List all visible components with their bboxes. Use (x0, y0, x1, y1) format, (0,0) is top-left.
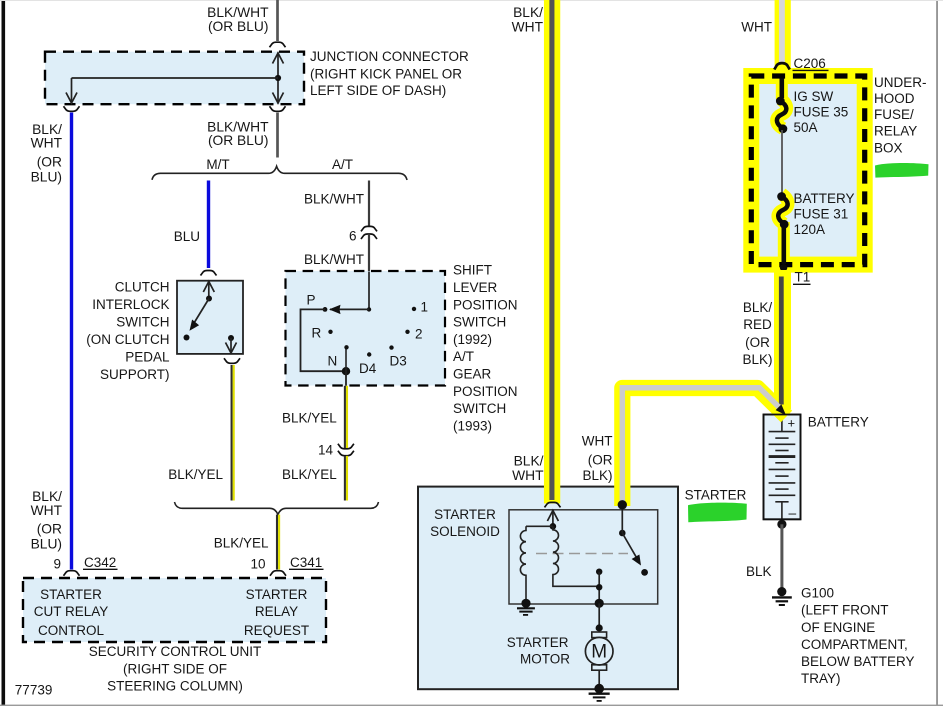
connector cap at C342 entry (64, 571, 80, 576)
svg-text:A/T: A/T (453, 349, 474, 364)
svg-text:SUPPORT): SUPPORT) (100, 367, 170, 382)
connector cup at junction connector bottom right exit (270, 106, 286, 111)
wire motor to ground (598, 671, 600, 689)
label UNDER-HOOD FUSE/RELAY BOX (874, 75, 927, 155)
svg-text:BLK/YEL: BLK/YEL (168, 467, 223, 482)
wire vertical inside junction connector right (277, 52, 279, 103)
starter box (418, 487, 678, 690)
wire inner box to motor (598, 603, 600, 628)
svg-text:GEAR: GEAR (453, 367, 492, 382)
svg-text:OF ENGINE: OF ENGINE (801, 620, 875, 635)
connector cap at C341 entry (270, 571, 286, 576)
pin R dot (328, 330, 332, 334)
wire to left coil (526, 525, 553, 527)
label BLK/WHT top center (512, 5, 544, 34)
connector cap at junction connector top entry (270, 42, 286, 47)
connector cap at clutch interlock switch entry (201, 271, 217, 276)
page left border (2, 0, 6, 706)
svg-text:BLK): BLK) (742, 352, 772, 367)
svg-text:WHT: WHT (31, 136, 63, 151)
in-line connector 14 (338, 444, 354, 449)
svg-text:WHT: WHT (31, 503, 63, 518)
underhood fuse/relay box group (751, 76, 864, 271)
svg-text:14: 14 (318, 443, 334, 458)
wire contact stub (598, 572, 600, 604)
svg-text:MOTOR: MOTOR (520, 651, 570, 666)
svg-text:LEVER: LEVER (453, 280, 498, 295)
label STARTER RELAY REQUEST (244, 587, 309, 638)
svg-text:(OR BLU): (OR BLU) (208, 19, 269, 34)
node battery negative (777, 520, 786, 529)
svg-text:WHT: WHT (512, 19, 544, 34)
svg-text:BLK/WHT: BLK/WHT (207, 5, 269, 20)
wire wiper to P with arrow (330, 308, 369, 310)
junction connector box (45, 52, 304, 104)
svg-text:(OR: (OR (588, 453, 613, 468)
svg-text:WHT: WHT (512, 468, 544, 483)
svg-text:T1: T1 (795, 270, 811, 285)
battery box (764, 415, 801, 520)
arrow up at solenoid entry (552, 511, 554, 527)
svg-text:6: 6 (349, 229, 357, 244)
wire BLK/YEL right lower (344, 456, 346, 501)
svg-text:RED: RED (743, 317, 772, 332)
svg-text:JUNCTION CONNECTOR: JUNCTION CONNECTOR (310, 49, 469, 64)
wire P to common L path (301, 309, 347, 371)
wire shift switch exit (345, 371, 347, 386)
wire horizontal inside junction connector (72, 77, 279, 79)
battery + terminal stub (781, 416, 783, 432)
wire into shift switch (368, 272, 370, 310)
node motor line at inner box border (595, 599, 604, 608)
svg-text:BLK/: BLK/ (743, 300, 773, 315)
pin 2 dot (405, 330, 409, 334)
coil left (pull-in winding) (520, 526, 526, 603)
svg-text:BLK/WHT: BLK/WHT (304, 192, 364, 207)
label IG SW FUSE 35 50A (794, 89, 849, 135)
wire vertical inside junction connector left (71, 78, 73, 104)
page bottom edge (0, 705, 943, 706)
label BATTERY FUSE 31 120A (794, 191, 855, 237)
clutch interlock switch box (177, 281, 243, 354)
svg-text:BELOW BATTERY: BELOW BATTERY (801, 654, 915, 669)
coil right (hold-in winding) (553, 526, 599, 586)
svg-text:M/T: M/T (206, 157, 229, 172)
svg-text:BATTERY: BATTERY (794, 191, 855, 206)
svg-text:A/T: A/T (332, 157, 353, 172)
svg-text:WHT: WHT (582, 434, 613, 449)
wire BLK/WHT (A/T branch) lower (368, 234, 370, 271)
svg-text:R: R (312, 326, 322, 341)
svg-text:2: 2 (415, 327, 423, 342)
svg-text:PEDAL: PEDAL (125, 350, 170, 365)
svg-text:77739: 77739 (15, 683, 53, 698)
wire clutch switch output down (230, 338, 232, 353)
svg-text:BLU: BLU (174, 229, 200, 244)
arrow down at junction connector bottom right (273, 93, 284, 104)
highlighter on internal feed wire (776, 80, 788, 99)
node junction dot inside connector (275, 75, 281, 81)
battery - terminal stub (781, 502, 783, 519)
label SHIFT LEVER POSITION SWITCH (1992) A/T GEAR POSITION SWITCH (1993) (453, 263, 518, 434)
svg-text:(ON CLUTCH: (ON CLUTCH (86, 332, 169, 347)
highlighter on BLK/RED wire (774, 270, 791, 409)
svg-text:SECURITY CONTROL UNIT: SECURITY CONTROL UNIT (89, 644, 262, 659)
node solenoid feed (550, 523, 557, 530)
wire fuse 31 to T1 (781, 226, 786, 264)
arrow into battery positive (776, 404, 786, 415)
svg-text:BLK/: BLK/ (32, 489, 62, 504)
wire BLK/YEL right upper (from shift switch) (344, 386, 346, 449)
svg-text:POSITION: POSITION (453, 297, 518, 312)
svg-text:BATTERY: BATTERY (808, 415, 869, 430)
node WHT wire at starter box (618, 500, 627, 509)
label BLK/WHT (OR BLU) left lower (31, 489, 63, 552)
arrow down at clutch switch bottom (226, 343, 237, 354)
ground below starter box (589, 693, 610, 695)
svg-text:LEFT SIDE OF DASH): LEFT SIDE OF DASH) (310, 83, 446, 98)
connector cap at starter solenoid entry (545, 502, 561, 507)
svg-text:–: – (789, 506, 797, 521)
brace merge BLK/YEL (175, 502, 379, 515)
svg-text:BLK: BLK (746, 564, 772, 579)
solenoid switch blade (open) with arrow (622, 533, 637, 558)
highlighter on WHT (OR BLK) path to starter (622, 388, 786, 506)
label WHT (OR BLK) (582, 434, 613, 483)
arrow down at junction connector bottom left (66, 93, 77, 104)
svg-text:C342: C342 (84, 555, 116, 570)
svg-text:N: N (328, 354, 338, 369)
wire BLK/WHT(OR BLU) blue left vertical (70, 113, 73, 570)
node coil ground junction (521, 599, 530, 608)
highlighter on WHT wire top (775, 0, 791, 70)
svg-text:SHIFT: SHIFT (453, 263, 492, 278)
svg-text:FUSE 31: FUSE 31 (794, 207, 849, 222)
wire BLU (M/T branch) (207, 181, 210, 269)
fuse IG SW FUSE 35 50A (776, 97, 785, 106)
svg-text:C341: C341 (290, 555, 322, 570)
wire BLK/YEL merged down (276, 515, 278, 570)
svg-text:SWITCH: SWITCH (453, 401, 506, 416)
svg-text:BLK): BLK) (582, 468, 612, 483)
svg-text:TRAY): TRAY) (801, 671, 841, 686)
node motor ground at box border (594, 684, 604, 694)
label SECURITY CONTROL UNIT (RIGHT SIDE OF STEERING COLUMN) (89, 644, 262, 694)
highlighter on center BLK/WHT wire (544, 0, 560, 504)
node motor top (596, 624, 603, 631)
connector cup at junction connector bottom left exit (64, 106, 80, 111)
terminal T1 blob (780, 264, 787, 271)
wire WHT (OR BLK) path (622, 388, 781, 505)
svg-text:(OR BLU): (OR BLU) (208, 133, 269, 148)
wire BLK/RED vertical (779, 277, 784, 405)
svg-text:C206: C206 (794, 56, 826, 71)
svg-text:STARTER: STARTER (246, 587, 308, 602)
svg-text:(1992): (1992) (453, 332, 492, 347)
svg-text:IG SW: IG SW (794, 89, 834, 104)
ground inside starter (517, 607, 535, 609)
wire BLK/WHT (OR BLU) from top into junction connector (276, 0, 279, 41)
label BLK/WHT (OR BLU) top (207, 5, 269, 34)
highlighter ring around fuse box (751, 76, 864, 265)
clutch switch lower contact (184, 335, 190, 341)
svg-text:(LEFT FRONT: (LEFT FRONT (801, 602, 889, 617)
mechanical link dashed (536, 553, 628, 555)
starter solenoid inner box (509, 510, 658, 604)
svg-text:RELAY: RELAY (255, 604, 298, 619)
svg-text:D4: D4 (359, 361, 377, 376)
svg-text:BLU): BLU) (31, 537, 62, 552)
clutch switch blade (open) (193, 299, 210, 326)
svg-text:BLK/: BLK/ (514, 454, 544, 469)
pin D4 dot (367, 352, 371, 356)
svg-text:BLK/WHT: BLK/WHT (304, 252, 364, 267)
svg-text:G100: G100 (801, 585, 834, 600)
svg-text:RELAY: RELAY (874, 124, 917, 139)
pin D3 dot (389, 345, 393, 349)
battery border restroke (764, 415, 801, 520)
svg-text:BOX: BOX (874, 140, 903, 155)
label STARTER CUT RELAY CONTROL (34, 587, 109, 638)
svg-text:50A: 50A (794, 120, 818, 135)
svg-text:SOLENOID: SOLENOID (430, 524, 500, 539)
label CLUTCH INTERLOCK SWITCH (86, 280, 170, 383)
svg-text:BLK/YEL: BLK/YEL (282, 467, 337, 482)
node common terminal (342, 367, 350, 375)
label G100 (LEFT FRONT OF ENGINE COMPARTMENT, BELOW BATTERY TRAY) (801, 585, 915, 686)
svg-text:STARTER: STARTER (40, 587, 102, 602)
svg-text:9: 9 (53, 557, 61, 572)
security control unit box (23, 578, 326, 642)
svg-text:+: + (788, 416, 796, 431)
ground G100 (777, 587, 786, 596)
connector cup at clutch switch exit (224, 358, 240, 363)
label STARTER SOLENOID (430, 507, 500, 539)
label JUNCTION CONNECTOR (310, 49, 469, 98)
svg-text:(RIGHT KICK PANEL OR: (RIGHT KICK PANEL OR (310, 66, 462, 81)
label BLK/WHT above starter (512, 454, 544, 484)
wire BLK/YEL left (from clutch switch) (231, 365, 233, 501)
fuse BATTERY FUSE 31 120A (777, 192, 786, 201)
svg-text:SWITCH: SWITCH (453, 315, 506, 330)
svg-text:INTERLOCK: INTERLOCK (92, 297, 169, 312)
label STARTER MOTOR (507, 635, 571, 666)
svg-text:P: P (307, 293, 316, 308)
green highlighter mark right of fuse box (875, 163, 929, 178)
svg-text:STEERING COLUMN): STEERING COLUMN) (107, 679, 243, 694)
svg-text:WHT: WHT (741, 20, 772, 35)
svg-text:1: 1 (421, 300, 429, 315)
svg-text:UNDER-: UNDER- (874, 75, 927, 90)
switch fixed contact (battery feed) (619, 530, 626, 537)
wire BLK/WHT center thick (549, 0, 554, 500)
wire between fuses (781, 130, 783, 197)
svg-text:120A: 120A (794, 222, 826, 237)
svg-text:FUSE 35: FUSE 35 (794, 105, 849, 120)
fuse box dashed border (751, 76, 864, 265)
svg-text:FUSE/: FUSE/ (874, 107, 914, 122)
svg-text:BLU): BLU) (31, 170, 62, 185)
svg-text:CUT RELAY: CUT RELAY (34, 604, 109, 619)
svg-text:M: M (591, 642, 607, 663)
svg-text:HOOD: HOOD (874, 91, 915, 106)
svg-text:(OR: (OR (37, 522, 62, 537)
svg-text:D3: D3 (390, 354, 407, 369)
wire from junction connector to M/T A/T brace (276, 113, 279, 158)
label BLK/WHT (OR BLU) below junction connector (207, 120, 269, 149)
arrow up at clutch switch top (208, 282, 210, 299)
starter motor M (592, 632, 607, 638)
svg-text:STARTER: STARTER (685, 488, 747, 503)
svg-text:BLK/: BLK/ (513, 5, 543, 20)
shift lever position switch box (286, 271, 446, 386)
wire BLK battery to ground (780, 524, 783, 587)
svg-text:STARTER: STARTER (507, 635, 569, 650)
svg-text:SWITCH: SWITCH (116, 315, 169, 330)
page top edge (0, 0, 943, 1)
svg-text:CONTROL: CONTROL (38, 623, 104, 638)
solenoid switch lower contact (641, 569, 648, 576)
wire BLK/WHT (A/T branch) upper (368, 181, 370, 226)
node coil/motor junction (596, 584, 602, 590)
clutch switch output contact (228, 335, 234, 341)
connector C206 cap (774, 63, 789, 69)
wire feed from C206 into box (779, 79, 784, 99)
wire common stub up (345, 348, 347, 372)
wire WHT top (779, 0, 785, 62)
battery plates (769, 432, 796, 502)
svg-text:POSITION: POSITION (453, 384, 518, 399)
fuse box fill (751, 76, 864, 265)
svg-text:(RIGHT SIDE OF: (RIGHT SIDE OF (123, 661, 227, 676)
svg-text:(1993): (1993) (453, 418, 492, 433)
node motor feed upper contact (596, 569, 602, 575)
page right border (936, 0, 938, 706)
svg-text:BLK/YEL: BLK/YEL (282, 411, 337, 426)
svg-text:10: 10 (250, 557, 265, 572)
node clutch switch common (206, 296, 212, 302)
svg-text:REQUEST: REQUEST (244, 623, 309, 638)
pin P dot (323, 307, 328, 312)
svg-text:BLK/YEL: BLK/YEL (214, 536, 269, 551)
label BLK/RED (OR BLK) (742, 300, 772, 367)
svg-text:(OR: (OR (37, 155, 62, 170)
svg-text:STARTER: STARTER (434, 507, 496, 522)
svg-text:COMPARTMENT,: COMPARTMENT, (801, 637, 908, 652)
svg-text:(OR: (OR (745, 335, 770, 350)
pin 1 dot (412, 307, 416, 311)
wire from entry node to switch contact (621, 505, 623, 533)
svg-text:CLUTCH: CLUTCH (115, 280, 170, 295)
brace M/T A/T split (152, 166, 407, 180)
arrow up at junction connector top (273, 53, 284, 64)
label BLK/WHT (OR BLU) left upper (31, 122, 63, 185)
